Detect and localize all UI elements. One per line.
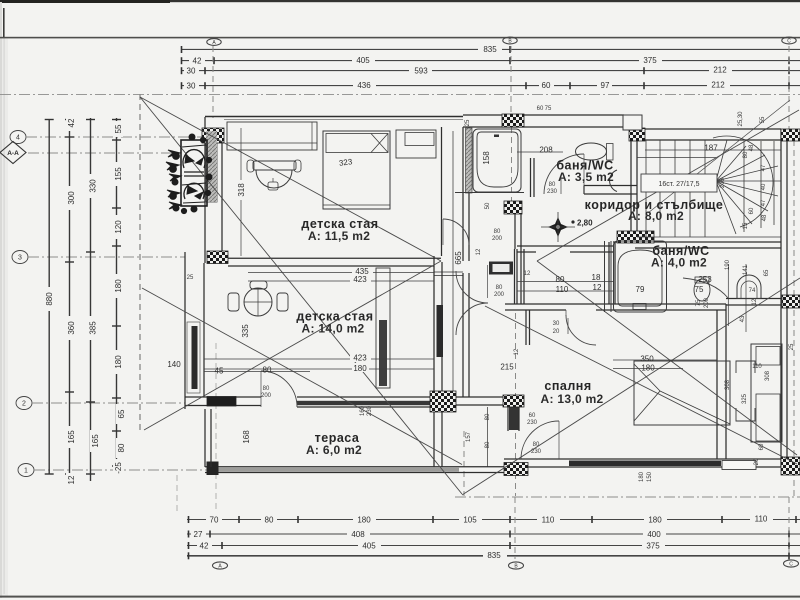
svg-text:180: 180 — [357, 516, 371, 525]
rotated labels col1 — [44, 115, 126, 488]
svg-text:208: 208 — [539, 146, 553, 155]
svg-text:325: 325 — [742, 393, 748, 404]
svg-text:25: 25 — [789, 343, 795, 350]
axis circle C bottom — [784, 560, 799, 567]
table chairs room2 — [244, 288, 272, 316]
svg-text:16ст. 27/17,5: 16ст. 27/17,5 — [659, 181, 700, 188]
terrace bottom wall dark left cap — [207, 462, 219, 476]
svg-text:318: 318 — [237, 183, 246, 197]
axis circle 2 — [16, 397, 32, 410]
svg-text:15: 15 — [743, 222, 749, 229]
elevation text — [571, 220, 574, 223]
svg-text:423: 423 — [353, 275, 367, 284]
section diamond A-A — [0, 142, 26, 164]
svg-text:368: 368 — [725, 379, 731, 390]
door arc below entry — [456, 303, 488, 335]
svg-text:190: 190 — [725, 259, 731, 270]
axis circle 3 — [12, 251, 28, 264]
dashed vertical near A bottom — [176, 475, 178, 514]
top wall stairs double line — [624, 128, 781, 130]
svg-text:120: 120 — [114, 220, 123, 234]
svg-text:400: 400 — [647, 530, 661, 539]
svg-text:200: 200 — [704, 297, 710, 308]
svg-text:405: 405 — [362, 542, 376, 551]
dashed vertical axis B mid — [515, 313, 517, 496]
svg-text:300: 300 — [67, 191, 76, 205]
svg-text:74: 74 — [749, 288, 756, 294]
wall pier hatch corridor bottom — [617, 231, 654, 243]
dash-dot reference line under top dims — [0, 93, 800, 95]
bath1/stair divider wall double — [630, 141, 632, 240]
stair winder fan lines — [716, 140, 727, 181]
diagonal bedroom to bottom-right corner — [485, 306, 797, 464]
axis circle B top — [503, 37, 517, 44]
svg-text:65: 65 — [764, 269, 770, 276]
wall pier hatch top-right corner — [781, 129, 800, 141]
dashed vertical axis B top — [510, 46, 512, 116]
left wall lower double — [184, 252, 186, 409]
svg-text:75: 75 — [545, 106, 552, 112]
svg-text:835: 835 — [487, 551, 501, 560]
toilet bath1 — [576, 143, 607, 160]
wall pier hatch right wall mid — [782, 295, 800, 308]
svg-text:спалня: спалня — [544, 379, 591, 393]
svg-text:200: 200 — [492, 236, 503, 242]
axis circle A bottom — [213, 562, 228, 569]
window strip room2 left — [192, 326, 198, 389]
scan artifact: top black bar — [0, 0, 800, 2]
scan artifact: left pale band — [0, 38, 8, 596]
svg-text:80: 80 — [263, 366, 272, 375]
dashed vertical axis A top — [212, 46, 214, 118]
dashed vertical center bottom — [463, 431, 465, 496]
svg-text:180: 180 — [114, 279, 123, 293]
svg-text:150: 150 — [647, 471, 653, 482]
svg-text:180: 180 — [641, 364, 655, 373]
svg-text:80: 80 — [556, 275, 565, 284]
dim line 435/423 room2 top — [204, 128, 781, 372]
dark door panel in mid wall — [489, 262, 513, 275]
svg-text:75: 75 — [695, 285, 704, 294]
wardrobe room2 left wall — [376, 268, 390, 388]
svg-text:110: 110 — [755, 515, 768, 524]
svg-text:А: 6,0 m2: А: 6,0 m2 — [306, 443, 362, 457]
svg-text:55: 55 — [114, 124, 123, 133]
svg-text:80: 80 — [533, 442, 540, 448]
desk chair room1 — [253, 161, 296, 170]
svg-text:350: 350 — [640, 355, 654, 364]
svg-text:30: 30 — [187, 66, 196, 75]
left wall upper double — [204, 117, 206, 263]
svg-text:80: 80 — [265, 516, 274, 525]
wardrobe bedroom right — [751, 344, 782, 442]
svg-text:408: 408 — [351, 530, 365, 539]
bed room1 — [323, 131, 390, 209]
axis circle A top — [207, 39, 221, 46]
door arc room2 — [261, 371, 297, 407]
svg-text:97: 97 — [601, 81, 610, 90]
svg-text:20: 20 — [754, 458, 760, 465]
door arc entry big — [456, 271, 488, 303]
svg-text:C: C — [789, 562, 793, 568]
svg-text:12: 12 — [752, 298, 758, 305]
svg-text:230: 230 — [531, 449, 542, 455]
terrace top wall double — [185, 396, 261, 398]
svg-text:60: 60 — [542, 81, 551, 90]
svg-text:330: 330 — [89, 179, 98, 193]
svg-text:160: 160 — [360, 405, 366, 416]
scan artifact: top hairline — [0, 37, 800, 39]
hall dim line 665 — [452, 131, 454, 395]
stair count label box — [641, 174, 717, 192]
axis circle C top — [782, 37, 796, 44]
svg-text:12: 12 — [67, 475, 76, 484]
svg-text:308: 308 — [765, 370, 771, 381]
dim row 30/593/212 — [181, 70, 800, 72]
elevation marker star — [548, 217, 568, 237]
dashed vertical axis C bottom — [788, 497, 790, 556]
svg-text:48: 48 — [762, 214, 768, 221]
svg-text:436: 436 — [357, 81, 371, 90]
svg-text:27: 27 — [194, 530, 203, 539]
door arc hall to room1 — [443, 219, 469, 245]
svg-text:405: 405 — [356, 56, 370, 65]
door arc bath1 — [544, 154, 584, 194]
nightstand bottom — [736, 408, 755, 421]
svg-text:50: 50 — [485, 202, 491, 209]
svg-text:65: 65 — [117, 409, 126, 418]
dashed boundary vertical left — [139, 94, 141, 430]
wall pier gray strip room1 left wall — [206, 131, 217, 202]
svg-text:25,30: 25,30 — [738, 111, 744, 127]
svg-text:110: 110 — [542, 516, 555, 525]
svg-text:200: 200 — [261, 393, 272, 399]
tick marks on vertical dim lines — [45, 120, 121, 475]
wall pier verticals below B — [514, 249, 516, 304]
bedroom top wall double — [505, 303, 726, 305]
vertical dim line 880 — [49, 118, 116, 481]
svg-text:323: 323 — [338, 157, 353, 168]
bath2 left wall double — [608, 242, 610, 304]
corridor bottom wall double — [517, 245, 613, 247]
scan artifact: left gray streak — [0, 2, 2, 598]
svg-text:А: 14,0 m2: А: 14,0 m2 — [301, 322, 364, 336]
svg-text:80: 80 — [485, 441, 491, 448]
wall pier hatch top-left corner — [202, 128, 224, 143]
svg-text:212: 212 — [711, 81, 725, 90]
svg-text:110: 110 — [556, 285, 569, 294]
bath1 left partition wall — [530, 158, 532, 197]
wall pier hatch bath1 bottom — [504, 201, 522, 214]
svg-text:42: 42 — [67, 118, 76, 127]
diagonal bottom vertex to right — [462, 278, 800, 495]
wall pier hatch axis B entry — [503, 395, 524, 407]
svg-text:157: 157 — [466, 431, 472, 442]
dim row 30/436/60/97/212 — [181, 85, 800, 87]
svg-text:20: 20 — [553, 329, 560, 335]
svg-text:60: 60 — [529, 413, 536, 419]
diagonal stairs second line — [648, 100, 790, 213]
svg-text:230: 230 — [547, 189, 558, 195]
dashed vertical axis B tub — [511, 117, 513, 215]
door arc terrace-bedroom — [521, 421, 559, 459]
toilet bath2 — [694, 279, 710, 301]
svg-text:А: 4,0 m2: А: 4,0 m2 — [651, 256, 707, 270]
svg-text:215: 215 — [500, 363, 514, 372]
bathtub bath2 — [614, 241, 667, 312]
top wall room1 double line — [205, 116, 463, 118]
shelf room1 top right — [396, 130, 436, 158]
svg-text:665: 665 — [454, 251, 463, 265]
dashed vertical terrace — [215, 343, 217, 511]
svg-text:30: 30 — [187, 81, 196, 90]
svg-text:423: 423 — [353, 354, 367, 363]
diagonal top-left to bottom vertex — [140, 97, 462, 494]
washbasin bath2 — [737, 275, 761, 299]
terrace left wall double — [204, 409, 206, 467]
terrace bottom wall gray infill — [211, 468, 459, 472]
svg-text:110: 110 — [752, 364, 762, 370]
svg-text:12: 12 — [593, 283, 602, 292]
svg-text:2,80: 2,80 — [577, 219, 593, 228]
svg-text:25: 25 — [465, 119, 471, 126]
svg-text:212: 212 — [713, 66, 727, 75]
svg-text:180: 180 — [639, 471, 645, 482]
svg-text:25: 25 — [187, 275, 194, 281]
svg-text:C: C — [787, 39, 791, 45]
stair walking line arc — [713, 136, 773, 227]
hall wall left of bath double — [462, 127, 464, 261]
wall pier hatch left mid junction — [207, 251, 228, 264]
svg-text:375: 375 — [646, 542, 660, 551]
diagonal left block extra — [142, 288, 462, 465]
svg-text:-25: -25 — [114, 462, 123, 474]
shaft box above stair wall — [623, 115, 642, 130]
terrace bottom wall double — [205, 466, 504, 468]
svg-text:835: 835 — [483, 45, 497, 54]
svg-text:80: 80 — [263, 386, 270, 392]
svg-text:180: 180 — [114, 355, 123, 369]
stair mid landing line — [637, 157, 716, 159]
svg-text:12: 12 — [476, 248, 482, 255]
svg-text:45: 45 — [215, 367, 224, 376]
svg-text:60: 60 — [749, 207, 755, 214]
bedroom right wall double — [716, 310, 718, 459]
svg-text:385: 385 — [89, 321, 98, 335]
svg-text:4: 4 — [16, 135, 20, 142]
svg-text:A-A: A-A — [7, 150, 19, 157]
svg-text:47: 47 — [761, 199, 767, 206]
bath2 top wall double — [613, 241, 781, 243]
dim row 835 — [181, 48, 800, 50]
svg-text:А: 8,0 m2: А: 8,0 m2 — [628, 209, 684, 223]
svg-text:12: 12 — [524, 271, 531, 277]
svg-text:18: 18 — [592, 273, 601, 282]
closet band room1 top — [227, 122, 317, 150]
window strip central wall — [437, 305, 444, 357]
svg-text:360: 360 — [67, 321, 76, 335]
svg-text:168: 168 — [242, 430, 251, 444]
svg-text:80: 80 — [485, 413, 491, 420]
svg-text:140: 140 — [167, 360, 181, 369]
window strip room1 left — [206, 143, 217, 202]
svg-text:55: 55 — [760, 116, 766, 123]
top wall bath1 double line — [463, 114, 624, 116]
svg-text:80: 80 — [496, 285, 503, 291]
svg-text:141: 141 — [743, 264, 749, 275]
bath1 bottom wall double — [584, 185, 637, 187]
plant radiator left room1 — [181, 140, 207, 206]
svg-text:А: 13,0 m2: А: 13,0 m2 — [540, 392, 603, 406]
window box bottom wall right — [722, 461, 756, 470]
washbasin bath1 half-round — [610, 170, 617, 192]
axis circle B bottom — [509, 562, 524, 569]
svg-text:253: 253 — [698, 275, 712, 284]
stair treads vertical left — [645, 140, 647, 237]
svg-text:158: 158 — [482, 151, 491, 165]
svg-text:180: 180 — [353, 364, 367, 373]
svg-text:2: 2 — [22, 401, 26, 408]
wall pier hatch bedroom bottom left — [504, 463, 528, 476]
svg-text:48: 48 — [749, 144, 755, 151]
svg-text:60: 60 — [537, 106, 544, 112]
svg-text:80: 80 — [549, 182, 556, 188]
door arc bath2 — [683, 278, 728, 298]
svg-text:335: 335 — [241, 324, 250, 338]
bedroom bottom wall dark infill — [569, 461, 721, 467]
wall pier hatch bath1 right top — [629, 128, 645, 141]
nightstand top — [736, 361, 755, 373]
svg-text:165: 165 — [91, 434, 100, 448]
wall pier hatch bottom-right corner — [781, 457, 800, 475]
axis circle 4 — [10, 131, 26, 144]
dash-dot reference line above bottom dims — [455, 496, 800, 498]
diagonal corridor to bottom-right corner — [537, 261, 797, 455]
svg-text:80: 80 — [494, 229, 501, 235]
svg-text:230: 230 — [527, 420, 538, 426]
svg-text:43: 43 — [740, 315, 746, 322]
svg-text:79: 79 — [636, 285, 645, 294]
svg-text:40: 40 — [761, 183, 767, 190]
diagonal top-left to mid vertex — [140, 97, 441, 261]
dashed vertical axis B bottom — [514, 497, 516, 559]
dim row 42/405/375 — [181, 60, 800, 62]
svg-text:208: 208 — [720, 177, 726, 188]
svg-text:60: 60 — [759, 443, 765, 450]
wall pier hatch terrace top-left — [207, 397, 236, 407]
right outer wall double line — [780, 129, 782, 467]
mid wall between rooms double — [228, 257, 441, 259]
dashed vertical axis C top — [788, 46, 790, 130]
wall pier hatch axis B top — [502, 114, 524, 127]
svg-text:42: 42 — [193, 56, 202, 65]
svg-text:3: 3 — [18, 255, 22, 262]
bed bedroom — [634, 361, 730, 425]
svg-text:375: 375 — [643, 56, 657, 65]
svg-text:105: 105 — [463, 516, 477, 525]
entry top wall lines — [434, 396, 507, 398]
svg-text:230: 230 — [367, 405, 373, 416]
entry vertical wall dark — [509, 407, 519, 430]
svg-text:А: 3,5 m2: А: 3,5 m2 — [558, 170, 614, 184]
svg-text:180: 180 — [648, 516, 662, 525]
ticks row2 — [182, 46, 790, 89]
svg-text:200: 200 — [494, 292, 505, 298]
svg-text:80: 80 — [117, 443, 126, 452]
scan artifact: bottom line — [0, 596, 800, 598]
svg-text:30: 30 — [553, 321, 560, 327]
bath2 bottom wall right piece — [726, 298, 781, 300]
door arc bedroom — [566, 315, 596, 345]
diagonal stairs up arrow line — [537, 110, 799, 261]
closet side walls below top wall — [525, 310, 527, 345]
stair treads vertical right — [743, 141, 745, 232]
svg-text:593: 593 — [414, 66, 428, 75]
svg-text:70: 70 — [210, 516, 219, 525]
svg-text:12: 12 — [514, 348, 520, 355]
dashed vertical right margin — [793, 130, 795, 497]
bedroom bottom wall double — [504, 458, 781, 460]
svg-text:75: 75 — [696, 299, 702, 306]
central vertical wall double — [433, 256, 435, 467]
svg-text:1: 1 — [24, 468, 28, 475]
svg-text:А: 11,5 m2: А: 11,5 m2 — [308, 229, 370, 243]
svg-text:155: 155 — [114, 167, 123, 181]
wall pier hatch central wall bottom — [430, 391, 456, 412]
svg-text:880: 880 — [45, 292, 54, 306]
stair bottom edge — [637, 236, 781, 238]
svg-text:42: 42 — [200, 542, 209, 551]
dash-dot axis lines — [26, 137, 208, 470]
svg-text:47: 47 — [761, 164, 767, 171]
diagonal bottom-left to mid vertex — [144, 261, 441, 430]
dim vertical near entry — [487, 407, 489, 467]
axis circle 1 — [18, 464, 34, 477]
bathtub bath1 — [473, 129, 521, 192]
svg-text:165: 165 — [67, 430, 76, 444]
svg-text:187: 187 — [704, 144, 718, 153]
